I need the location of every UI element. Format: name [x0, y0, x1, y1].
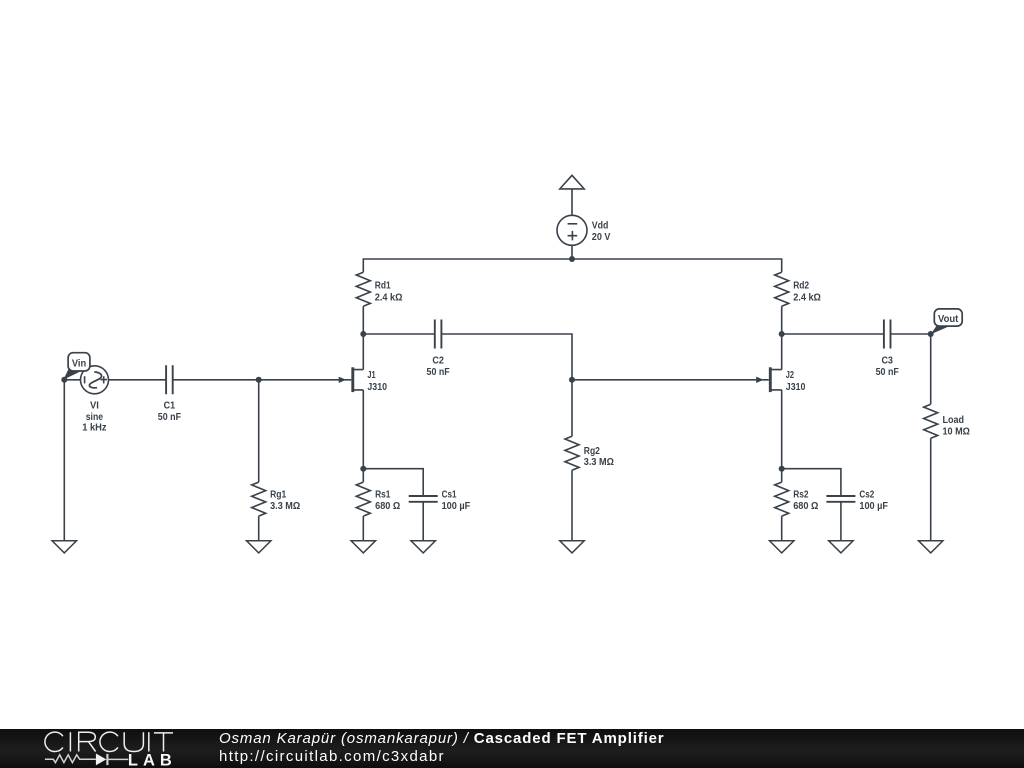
svg-text:Rs1: Rs1	[375, 490, 390, 501]
svg-text:J2: J2	[786, 370, 794, 381]
svg-text:100 µF: 100 µF	[859, 501, 888, 512]
svg-text:J310: J310	[367, 382, 387, 393]
svg-text:Osman Karapür (osmankarapur) /: Osman Karapür (osmankarapur) / Cascaded …	[219, 730, 664, 747]
svg-text:Vin: Vin	[72, 359, 86, 370]
svg-text:http://circuitlab.com/c3xdabr: http://circuitlab.com/c3xdabr	[219, 748, 445, 765]
svg-text:3.3 MΩ: 3.3 MΩ	[270, 501, 300, 512]
svg-text:sine: sine	[86, 412, 104, 423]
svg-text:50 nF: 50 nF	[427, 367, 450, 378]
svg-text:J310: J310	[786, 382, 806, 393]
svg-text:LAB: LAB	[128, 751, 177, 768]
svg-text:Rd2: Rd2	[793, 281, 809, 292]
svg-text:10 MΩ: 10 MΩ	[943, 426, 970, 437]
svg-text:Cs1: Cs1	[442, 490, 457, 501]
svg-text:1 kHz: 1 kHz	[82, 423, 106, 434]
svg-text:680 Ω: 680 Ω	[793, 501, 818, 512]
svg-text:Load: Load	[943, 415, 965, 426]
svg-text:Rg2: Rg2	[584, 446, 600, 457]
svg-text:Vout: Vout	[938, 314, 959, 325]
svg-text:C3: C3	[881, 356, 893, 367]
svg-text:C1: C1	[164, 400, 176, 411]
svg-text:20 V: 20 V	[592, 232, 611, 243]
svg-text:50 nF: 50 nF	[876, 367, 899, 378]
svg-text:Rg1: Rg1	[270, 490, 286, 501]
svg-text:100 µF: 100 µF	[442, 501, 471, 512]
svg-text:3.3 MΩ: 3.3 MΩ	[584, 457, 614, 468]
svg-text:2.4 kΩ: 2.4 kΩ	[375, 293, 403, 304]
svg-text:VI: VI	[90, 400, 99, 411]
svg-text:Cs2: Cs2	[859, 490, 874, 501]
svg-text:J1: J1	[367, 370, 375, 381]
svg-text:Vdd: Vdd	[592, 221, 609, 232]
svg-text:2.4 kΩ: 2.4 kΩ	[793, 293, 821, 304]
svg-text:C2: C2	[432, 356, 444, 367]
svg-text:Rs2: Rs2	[793, 490, 808, 501]
svg-text:Rd1: Rd1	[375, 281, 391, 292]
svg-text:680 Ω: 680 Ω	[375, 501, 400, 512]
svg-text:50 nF: 50 nF	[158, 412, 181, 423]
